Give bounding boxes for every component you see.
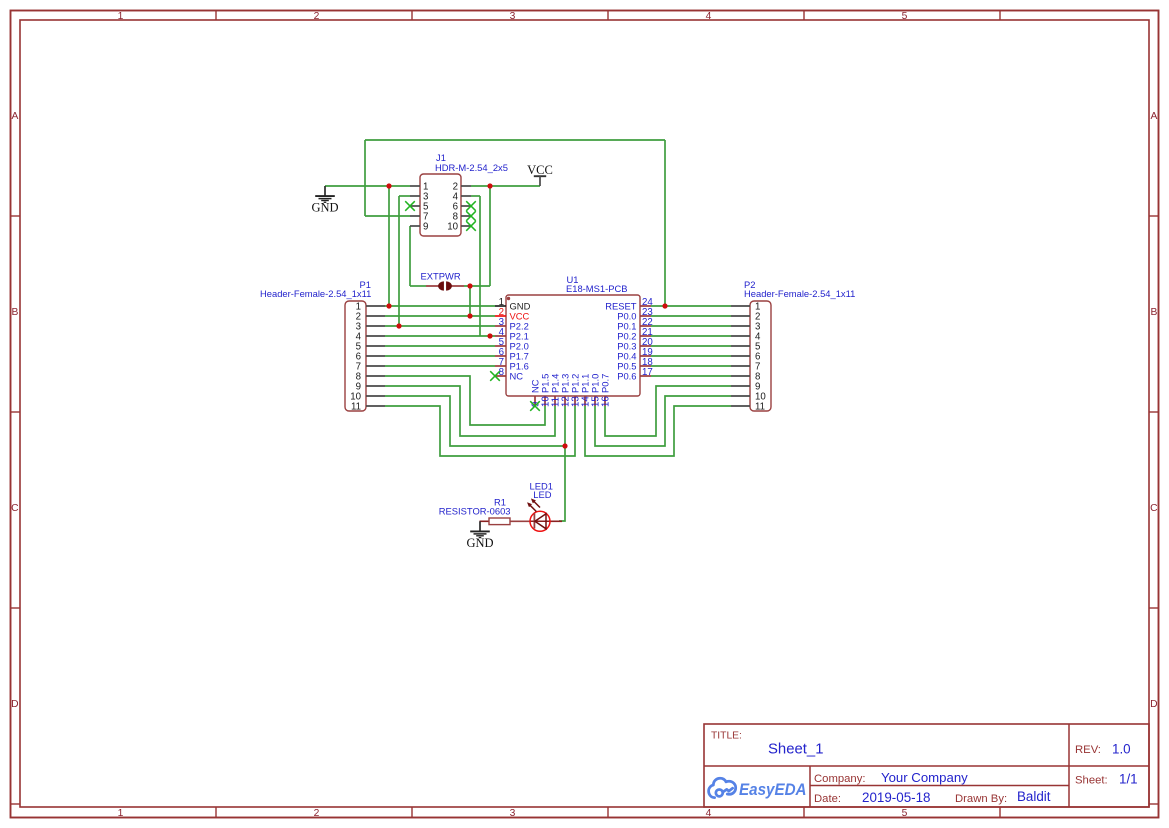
svg-text:9: 9 <box>423 221 428 232</box>
wire J1 pin3 stub link <box>399 195 410 197</box>
svg-text:3: 3 <box>510 11 516 22</box>
P1 pin 9 <box>366 385 385 387</box>
wire GND to J1 pin1 <box>325 185 410 187</box>
wire J1 pin4 vertical <box>479 196 481 336</box>
svg-text:D: D <box>1150 699 1157 710</box>
P1 pin 3 <box>366 325 385 327</box>
svg-text:Sheet:: Sheet: <box>1075 775 1108 787</box>
P1 pin 4 <box>366 335 385 337</box>
LED1 triangle <box>535 514 546 529</box>
P2 pin 3 <box>731 325 750 327</box>
svg-text:1: 1 <box>118 11 124 22</box>
U1 pin 4 (P2.1) <box>495 335 506 337</box>
U1 pin 11 (P1.4) <box>554 396 556 406</box>
P1 pin 7 <box>366 365 385 367</box>
wire P1 pin3 to U1 pin3 <box>385 325 495 327</box>
frame tick bottom x=1000 <box>999 807 1001 818</box>
LED1 right pin <box>550 520 562 522</box>
wire J1 pin2 to VCC flag <box>471 185 540 187</box>
U1 pin9 no-connect X <box>530 401 540 411</box>
wire U1 pin16 to P2 pin9 <box>605 386 731 436</box>
svg-text:B: B <box>11 307 18 318</box>
svg-text:Sheet_1: Sheet_1 <box>768 742 823 758</box>
connector J1 body <box>420 174 461 236</box>
svg-text:EasyEDA: EasyEDA <box>739 780 807 799</box>
wire P1 pin4 to U1 pin4 <box>385 335 495 337</box>
svg-text:A: A <box>11 111 18 122</box>
P1 pin 2 <box>366 315 385 317</box>
svg-text:4: 4 <box>706 11 712 22</box>
U1 pin 20 (P0.3) <box>640 345 651 347</box>
svg-text:2: 2 <box>314 808 320 819</box>
junction VCC row <box>467 313 472 318</box>
svg-text:D: D <box>11 699 18 710</box>
wire EXTPWR right <box>464 285 490 287</box>
frame tick top x=1000 <box>999 11 1001 21</box>
svg-text:Date:: Date: <box>814 793 841 805</box>
U1 pin8 no-connect X <box>490 371 500 381</box>
J1 pin 10 <box>461 225 471 227</box>
resistor R1 right pin / LED1 left pin <box>510 520 530 522</box>
EasyEDA logo <box>709 778 736 797</box>
P2 pin 10 <box>731 395 750 397</box>
P2 pin 6 <box>731 355 750 357</box>
svg-text:5: 5 <box>902 11 908 22</box>
resistor R1 left pin <box>480 520 490 522</box>
LED1 circle <box>530 511 550 531</box>
wire U1 pin14 to P2 pin11 <box>585 406 731 456</box>
wire VCC vertical J1 pin2 to EXTPWR <box>489 186 491 286</box>
frame tick right y=412 <box>1149 411 1159 413</box>
U1 pin 10 (P1.5) <box>544 396 546 406</box>
J1 pin 5 <box>410 205 420 207</box>
wire U1 pin20 to P2 pin5 <box>651 345 731 347</box>
frame tick top x=412 <box>411 11 413 21</box>
svg-text:NC: NC <box>510 371 524 382</box>
svg-text:Baldit: Baldit <box>1017 789 1051 804</box>
LED1 emission arrows <box>527 499 540 512</box>
P2 pin 8 <box>731 375 750 377</box>
junction VCC J1 pin2 <box>487 183 492 188</box>
svg-text:2019-05-18: 2019-05-18 <box>862 790 931 805</box>
junction P1 pin3 net <box>396 323 401 328</box>
frame tick left y=216 <box>11 215 21 217</box>
wire top horizontal net <box>365 139 665 141</box>
wire P1 pin11 to U1 pin13 <box>385 406 575 456</box>
wire U1 pin17 to P2 pin8 <box>651 375 731 377</box>
svg-text:GND: GND <box>311 201 338 215</box>
VCC power flag <box>534 175 546 177</box>
P1 pin 10 <box>366 395 385 397</box>
wire U1 pin12 to LED1 <box>559 406 565 521</box>
U1 pin 19 (P0.4) <box>640 355 651 357</box>
svg-text:3: 3 <box>510 808 516 819</box>
wire P1 pin7 to U1 pin7 <box>385 365 495 367</box>
svg-text:C: C <box>11 503 19 514</box>
U1 pin 12 (P1.3) <box>564 396 566 406</box>
U1 pin 5 (P2.0) <box>495 345 506 347</box>
header P2 body <box>750 301 771 411</box>
J1 pin6 no-connect X <box>466 201 476 211</box>
P2 pin 2 <box>731 315 750 317</box>
U1 pin 14 (P1.1) <box>584 396 586 406</box>
frame tick left y=804 <box>11 803 21 805</box>
svg-text:RESISTOR-0603: RESISTOR-0603 <box>439 506 511 517</box>
wire P1 pin8 to U1 pin10 <box>385 376 545 425</box>
wire J1 pin4 stub link <box>471 195 480 197</box>
J1 pin 8 <box>461 215 471 217</box>
frame tick left y=412 <box>11 411 21 413</box>
wire U1 pin15 to P2 pin10 <box>595 396 731 446</box>
svg-text:16: 16 <box>600 396 611 407</box>
frame tick right y=216 <box>1149 215 1159 217</box>
svg-text:A: A <box>1150 111 1157 122</box>
U1 pin 9 (NC) <box>534 396 536 406</box>
frame tick top x=608 <box>607 11 609 21</box>
frame tick bottom x=412 <box>411 807 413 818</box>
IC U1 body <box>506 295 640 396</box>
EXTPWR symbol <box>426 285 443 287</box>
U1 pin 18 (P0.5) <box>640 365 651 367</box>
wire U1 pin21 to P2 pin4 <box>651 335 731 337</box>
P1 pin 8 <box>366 375 385 377</box>
svg-text:GND: GND <box>466 536 493 550</box>
J1 pin 3 <box>410 195 420 197</box>
title block <box>704 724 1149 807</box>
U1 pin 2 (VCC) <box>495 315 506 317</box>
wire top-left vertical <box>364 140 366 216</box>
frame tick bottom x=804 <box>803 807 805 818</box>
LED1 through line <box>530 520 550 522</box>
J1 pin5 no-connect X <box>405 201 415 211</box>
svg-text:LED: LED <box>533 489 551 500</box>
J1 pin 4 <box>461 195 471 197</box>
U1 pin 13 (P1.2) <box>574 396 576 406</box>
wire U1 pin19 to P2 pin6 <box>651 355 731 357</box>
wire U1 pin18 to P2 pin7 <box>651 365 731 367</box>
svg-text:P0.6: P0.6 <box>617 371 636 382</box>
U1 pin 6 (P1.7) <box>495 355 506 357</box>
svg-text:Company:: Company: <box>814 773 866 785</box>
U1 pin 15 (P1.0) <box>594 396 596 406</box>
svg-text:HDR-M-2.54_2x5: HDR-M-2.54_2x5 <box>435 162 508 173</box>
svg-text:11: 11 <box>351 401 361 412</box>
svg-text:2: 2 <box>314 11 320 22</box>
junction GND/J1-P1 <box>386 183 391 188</box>
wire U1 pin24 to P2 pin1 <box>651 305 731 307</box>
svg-text:11: 11 <box>755 401 765 412</box>
U1 pin 21 (P0.2) <box>640 335 651 337</box>
J1 pin 9 <box>410 225 420 227</box>
junction P1 pin1 net <box>386 303 391 308</box>
frame tick bottom x=216 <box>215 807 217 818</box>
wire P1 pin10 to U1 pin12 <box>385 396 565 446</box>
P2 pin 5 <box>731 345 750 347</box>
header P1 body <box>345 301 366 411</box>
ground symbol near J1 <box>324 186 326 196</box>
wire to J1 pin7 <box>365 215 410 217</box>
P2 pin 1 <box>731 305 750 307</box>
wire net vertical to P1 pin3 <box>398 196 400 326</box>
U1 pin 1 (GND) <box>495 305 506 307</box>
P1 pin 1 <box>366 305 385 307</box>
svg-text:1.0: 1.0 <box>1112 742 1131 757</box>
wire U1 pin22 to P2 pin3 <box>651 325 731 327</box>
wire P1 pin9 to U1 pin11 <box>385 386 555 436</box>
svg-text:Header-Female-2.54_1x11: Header-Female-2.54_1x11 <box>260 288 371 299</box>
J1 pin 7 <box>410 215 420 217</box>
svg-text:C: C <box>1150 503 1158 514</box>
resistor R1 body <box>489 518 510 525</box>
wire P1 pin2 to U1 pin2 <box>385 315 495 317</box>
U1 pin 24 (RESET) <box>640 305 651 307</box>
U1 pin 16 (P0.7) <box>604 396 606 406</box>
frame tick top x=216 <box>215 11 217 21</box>
wire net vertical to P1 pin1 <box>388 186 390 306</box>
svg-text:Your Company: Your Company <box>881 770 968 785</box>
svg-text:1/1: 1/1 <box>1119 772 1138 787</box>
U1 pin 23 (P0.0) <box>640 315 651 317</box>
P1 pin 6 <box>366 355 385 357</box>
J1 pin10 no-connect X <box>466 221 476 231</box>
svg-text:1: 1 <box>118 808 124 819</box>
svg-text:P0.7: P0.7 <box>600 374 611 393</box>
P1 pin 11 <box>366 405 385 407</box>
frame tick bottom x=608 <box>607 807 609 818</box>
J1 pin 1 <box>410 185 420 187</box>
svg-text:REV:: REV: <box>1075 744 1101 756</box>
svg-text:10: 10 <box>447 221 458 232</box>
junction EXTPWR right <box>467 283 472 288</box>
svg-text:B: B <box>1150 307 1157 318</box>
ground symbol near R1 <box>479 521 481 531</box>
J1 pin8 no-connect X <box>466 211 476 221</box>
wire P1 pin1 to U1 pin1 <box>385 305 495 307</box>
U1 pin 8 (NC) <box>495 375 506 377</box>
P2 pin 11 <box>731 405 750 407</box>
svg-text:5: 5 <box>902 808 908 819</box>
svg-text:Drawn By:: Drawn By: <box>955 793 1007 805</box>
junction U1 pin4 net <box>487 333 492 338</box>
J1 pin 6 <box>461 205 471 207</box>
svg-text:EXTPWR: EXTPWR <box>421 271 461 282</box>
frame tick left y=608 <box>11 607 21 609</box>
wire P1 pin5 to U1 pin5 <box>385 345 495 347</box>
U1 pin 17 (P0.6) <box>640 375 651 377</box>
wire EXTPWR down to VCC row <box>469 286 471 316</box>
frame tick right y=608 <box>1149 607 1159 609</box>
svg-text:VCC: VCC <box>527 163 553 177</box>
J1 pin 2 <box>461 185 471 187</box>
wire P1 pin6 to U1 pin6 <box>385 355 495 357</box>
U1 pin1 marker dot <box>507 297 510 300</box>
U1 pin 22 (P0.1) <box>640 325 651 327</box>
P2 pin 9 <box>731 385 750 387</box>
U1 pin 7 (P1.6) <box>495 365 506 367</box>
wire to EXTPWR left <box>410 285 426 287</box>
svg-text:Header-Female-2.54_1x11: Header-Female-2.54_1x11 <box>744 288 855 299</box>
svg-text:17: 17 <box>642 367 653 378</box>
wire J1 pin9 down <box>409 226 411 286</box>
P2 pin 7 <box>731 365 750 367</box>
frame tick top x=804 <box>803 11 805 21</box>
LED1 cathode bar <box>533 513 535 528</box>
svg-text:E18-MS1-PCB: E18-MS1-PCB <box>566 283 627 294</box>
junction RESET net <box>662 303 667 308</box>
wire RESET vertical <box>664 140 666 306</box>
svg-text:TITLE:: TITLE: <box>711 731 742 742</box>
junction LED net <box>562 443 567 448</box>
P1 pin 5 <box>366 345 385 347</box>
wire U1 pin23 to P2 pin2 <box>651 315 731 317</box>
U1 pin 3 (P2.2) <box>495 325 506 327</box>
svg-text:4: 4 <box>706 808 712 819</box>
frame tick right y=804 <box>1149 803 1159 805</box>
P2 pin 4 <box>731 335 750 337</box>
